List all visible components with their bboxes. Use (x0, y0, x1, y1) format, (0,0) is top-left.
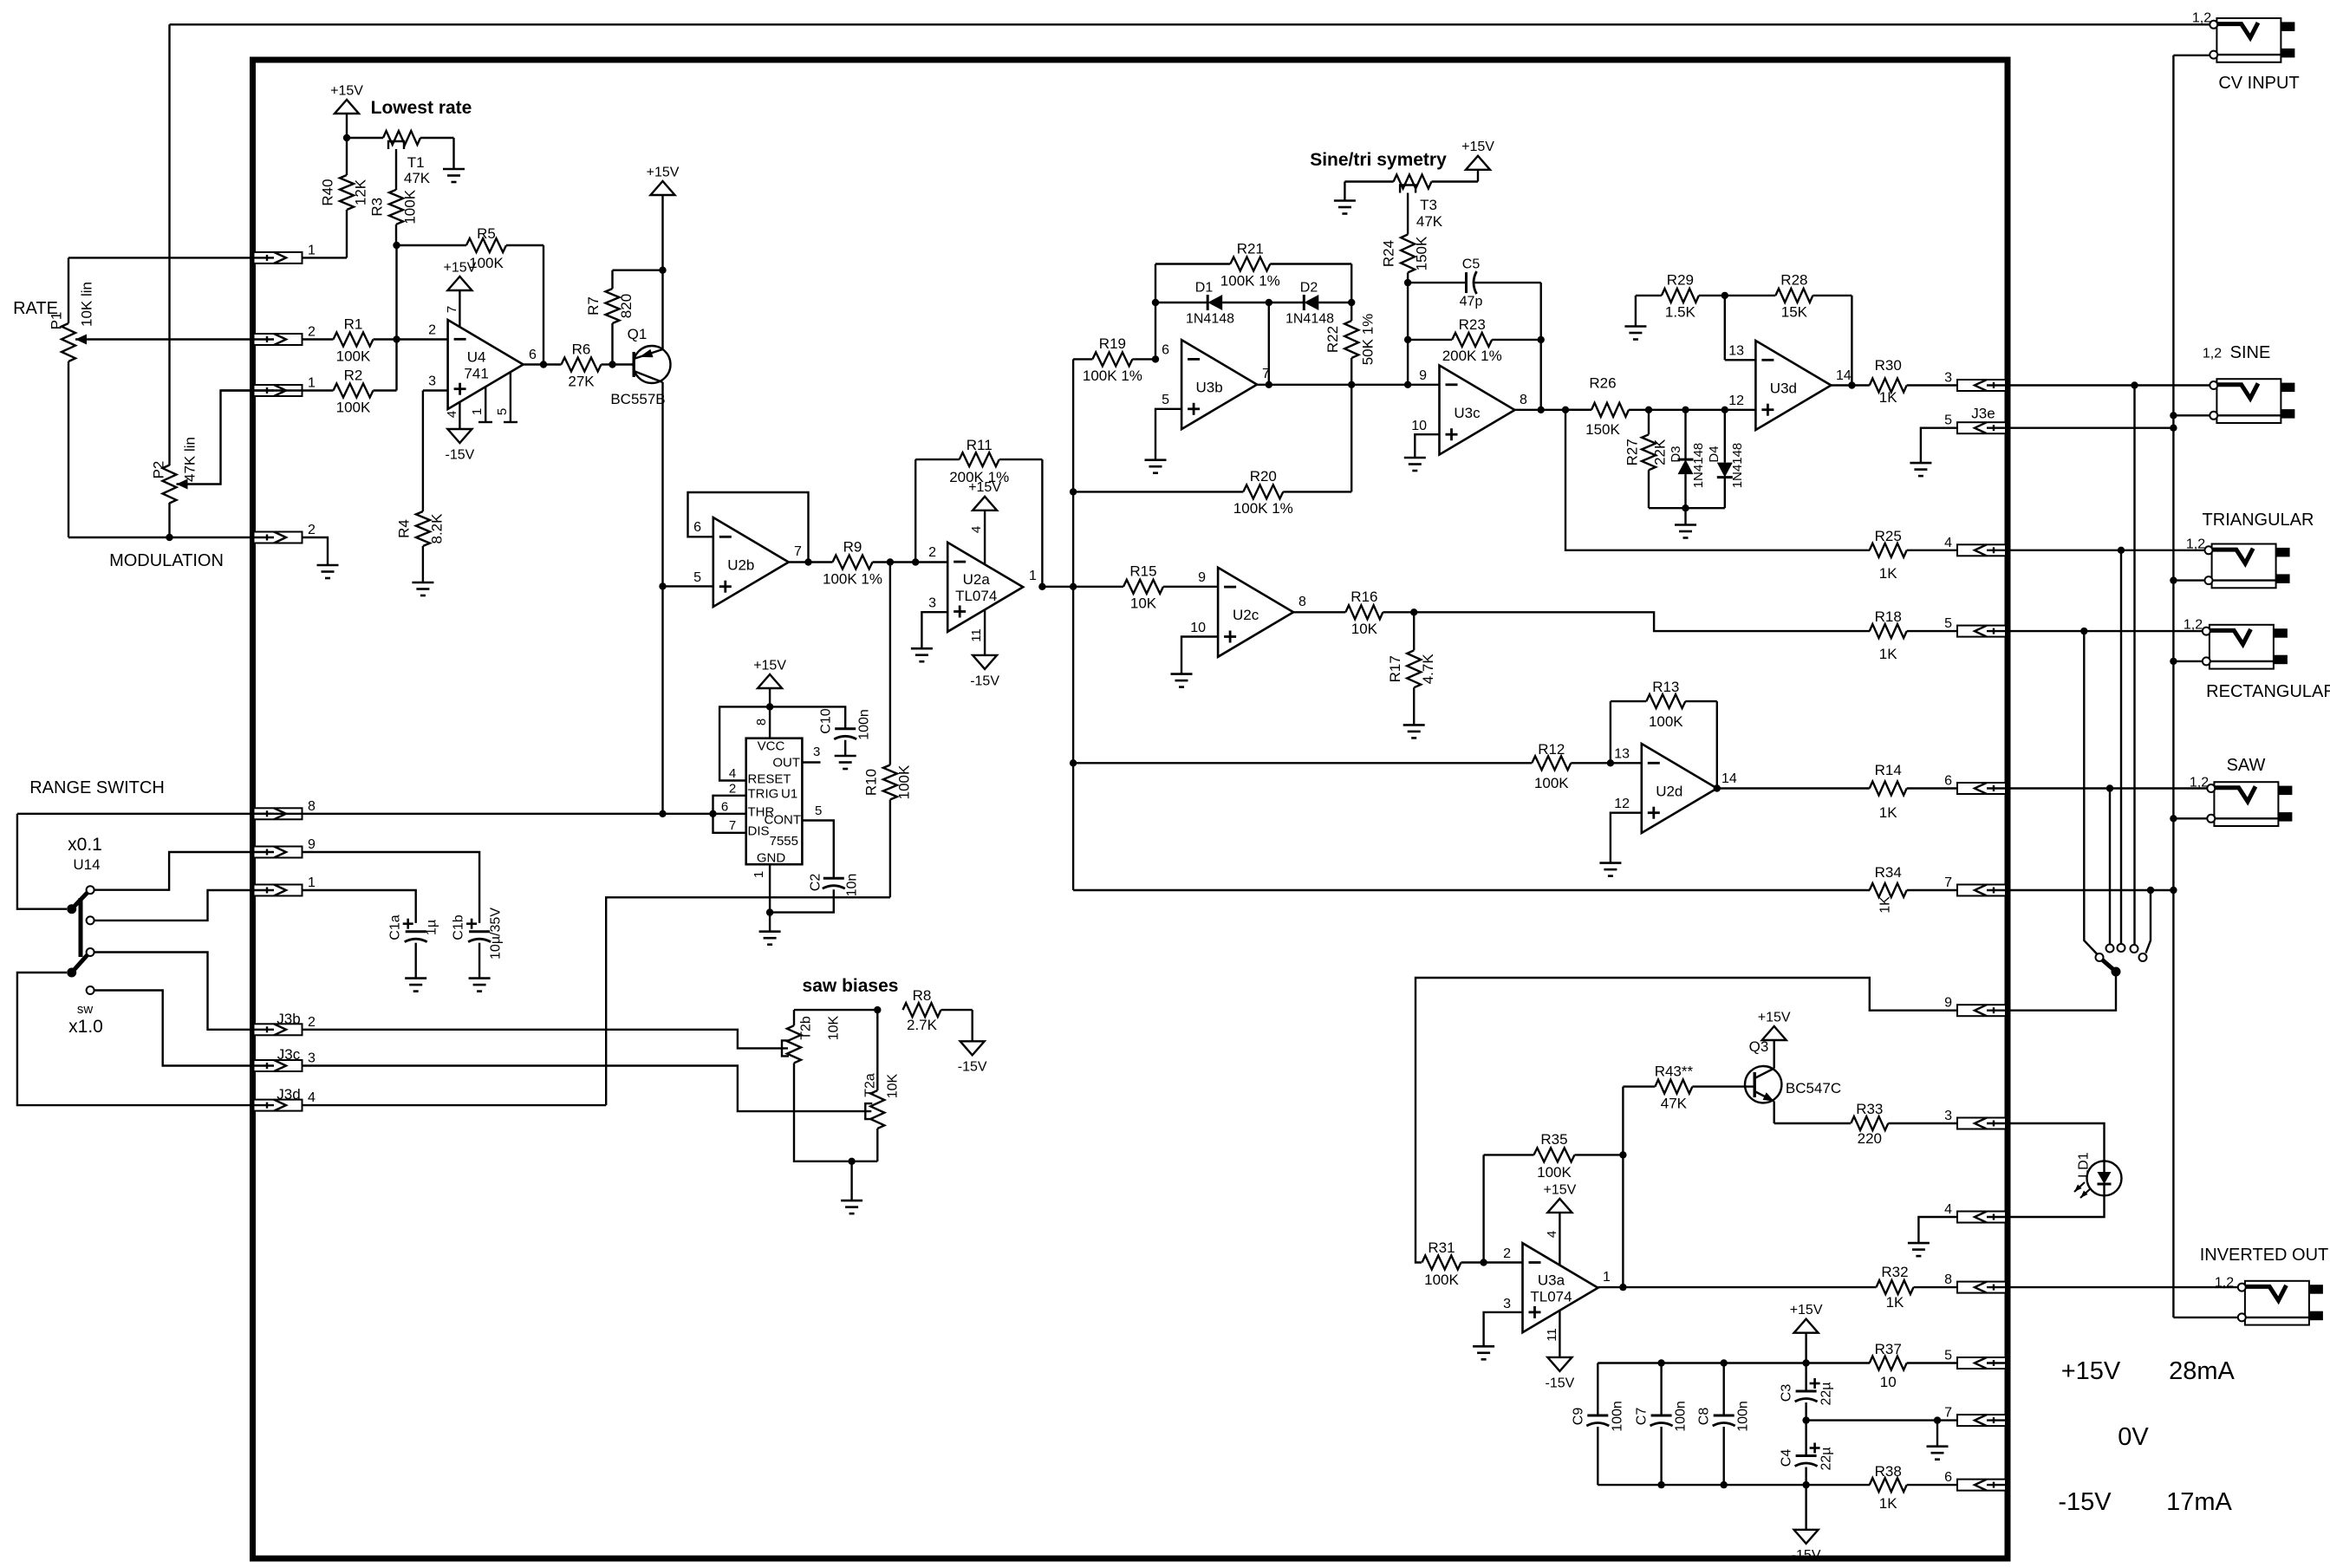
label SAW (2227, 756, 2266, 775)
wire thr (713, 813, 746, 815)
node U2b plus input (659, 582, 666, 589)
svg-text:R28: R28 (1780, 272, 1807, 289)
svg-text:-15V: -15V (2058, 1488, 2112, 1516)
node U3c pin9 (1404, 381, 1411, 388)
label sw (77, 1002, 94, 1017)
svg-text:12: 12 (1614, 797, 1630, 811)
svg-text:1K: 1K (1879, 565, 1897, 582)
node R26 left (1562, 407, 1569, 413)
svg-text:LD1: LD1 (2076, 1152, 2091, 1177)
wire P1 wiper row (75, 338, 254, 340)
svg-text:U2c: U2c (1233, 607, 1259, 623)
power +15V (rail) (1790, 1303, 1823, 1363)
svg-text:10n: 10n (844, 874, 859, 897)
label TRIANGULAR (2203, 511, 2314, 530)
connector pin 8 (inverted out) (1944, 1272, 2006, 1293)
wire R11 right down (1041, 459, 1043, 587)
wire R13 loop (1610, 701, 1611, 763)
wire R34 feed (1073, 889, 1870, 891)
svg-text:R18: R18 (1875, 608, 1902, 625)
op-amp U2d (1614, 744, 1737, 833)
svg-text:BC557B: BC557B (610, 391, 665, 407)
svg-text:R6: R6 (572, 341, 591, 357)
svg-text:3: 3 (1503, 1297, 1511, 1311)
ground R17 (1403, 725, 1425, 738)
svg-text:+15V: +15V (647, 165, 680, 179)
svg-text:Lowest rate: Lowest rate (371, 98, 472, 118)
ground U3b pin5 (1145, 460, 1167, 473)
svg-text:22µ: 22µ (1819, 1447, 1833, 1470)
svg-text:R23: R23 (1459, 316, 1486, 333)
resistor R5 (397, 225, 544, 271)
svg-text:1,2: 1,2 (2186, 537, 2205, 551)
resistor R11 (915, 437, 1042, 485)
capacitor C9 100n (1571, 1363, 1624, 1486)
svg-text:R21: R21 (1237, 240, 1264, 257)
svg-text:D2: D2 (1300, 280, 1318, 295)
svg-text:-15V: -15V (446, 447, 475, 462)
op-amp U3a (1503, 1243, 1611, 1332)
wire switch feed c3 (2120, 550, 2122, 944)
node R13 left (1607, 759, 1614, 766)
wire pin13 riser (1724, 296, 1726, 360)
svg-text:OUT: OUT (772, 756, 800, 771)
ground J3e (1910, 463, 1931, 476)
node R40 top (343, 134, 350, 141)
border frame (253, 60, 2008, 1558)
wire sine sleeve to bus (2173, 414, 2210, 416)
svg-text:1,2: 1,2 (2190, 775, 2209, 790)
op-amp U2a (928, 543, 1037, 632)
wire switch feed c5 (2146, 890, 2151, 953)
svg-text:4.7K: 4.7K (1420, 654, 1436, 685)
svg-text:2: 2 (308, 1015, 316, 1030)
svg-text:5: 5 (495, 408, 510, 415)
svg-text:9: 9 (308, 837, 316, 852)
capacitor C5 47p (1408, 257, 1541, 309)
wire to U3a pin2 (1484, 1261, 1523, 1263)
capacitor C7 100n (1634, 1363, 1688, 1486)
wire CV line down to P2 (168, 24, 170, 465)
rotary switch contacts (2096, 944, 2147, 961)
svg-text:5: 5 (693, 570, 701, 585)
resistor R28 (1725, 272, 1852, 321)
svg-text:U14: U14 (73, 856, 100, 873)
svg-text:R24: R24 (1381, 240, 1397, 267)
svg-text:R35: R35 (1540, 1131, 1567, 1148)
svg-text:200K 1%: 200K 1% (1442, 348, 1502, 364)
svg-text:R34: R34 (1875, 864, 1902, 881)
node U4 output (540, 361, 547, 368)
svg-text:100K 1%: 100K 1% (1233, 500, 1293, 517)
svg-text:D4: D4 (1707, 446, 1721, 462)
power +15V (U3a pin4) (1543, 1182, 1576, 1265)
connector pin 5 J3e (1944, 405, 2006, 433)
svg-text:MODULATION: MODULATION (109, 551, 224, 570)
wire core bus (1072, 359, 1074, 890)
svg-text:3: 3 (428, 374, 436, 389)
svg-text:12: 12 (1728, 394, 1744, 408)
label CV INPUT (2218, 74, 2299, 93)
svg-text:7: 7 (1262, 367, 1270, 381)
connector J3c pin 3 (254, 1046, 316, 1071)
ground T1 (443, 169, 465, 182)
transistor Q3 BC547C (1745, 1038, 1841, 1123)
svg-text:+15V: +15V (443, 260, 476, 275)
svg-text:T1: T1 (407, 154, 425, 171)
op-amp U2c (1190, 568, 1306, 657)
wire U3a pin3 to ground (1484, 1312, 1523, 1346)
resistor R21 (1155, 240, 1351, 289)
connector pin 6 (saw out) (1944, 774, 2006, 795)
svg-text:10µ/35V: 10µ/35V (488, 908, 503, 960)
svg-text:J3c: J3c (277, 1046, 301, 1063)
svg-text:1: 1 (752, 871, 766, 878)
resistor R3 (369, 189, 419, 245)
svg-text:22µ: 22µ (1819, 1382, 1833, 1405)
svg-text:8.2K: 8.2K (428, 513, 445, 544)
node R7/+15V (659, 267, 666, 274)
svg-text:Sine/tri symetry: Sine/tri symetry (1310, 150, 1447, 170)
svg-text:10: 10 (1411, 419, 1427, 433)
resistor R17 (1387, 612, 1436, 725)
svg-text:+15V: +15V (1461, 140, 1494, 154)
svg-text:U2a: U2a (963, 571, 991, 588)
svg-text:1,2: 1,2 (2215, 1275, 2234, 1290)
svg-text:R11: R11 (966, 437, 993, 453)
wire sine out to jack (2008, 384, 2210, 386)
svg-text:14: 14 (1836, 368, 1852, 383)
power +15V (Q1) (647, 165, 680, 270)
wire U2a pin3 to ground (921, 612, 947, 648)
svg-text:R15: R15 (1129, 563, 1156, 580)
label 0V (2118, 1423, 2149, 1451)
node rail c7 (1657, 1359, 1664, 1366)
power -15V (rail) (1792, 1485, 1821, 1563)
power +15V (T3) (1461, 140, 1494, 181)
svg-text:100K 1%: 100K 1% (1220, 272, 1280, 289)
svg-text:R16: R16 (1350, 589, 1377, 605)
IC U1 7555 (746, 738, 803, 866)
node D2 right (1348, 299, 1355, 306)
svg-text:R8: R8 (913, 987, 932, 1004)
wire U2d pin12 to ground (1611, 813, 1642, 863)
svg-text:7: 7 (729, 818, 736, 833)
ground U1 (759, 932, 781, 945)
resistor R26 (1565, 374, 1649, 438)
label x0.1 (68, 835, 102, 855)
connector pin 5 (rect out) (1944, 616, 2006, 637)
svg-text:saw biases: saw biases (803, 976, 899, 996)
wire clamp rail (1649, 507, 1725, 509)
trimpot T2a (862, 1010, 900, 1161)
svg-text:C1b: C1b (451, 914, 465, 940)
svg-text:1N4148: 1N4148 (1730, 443, 1745, 489)
svg-text:10: 10 (1190, 621, 1206, 635)
svg-text:7: 7 (1944, 875, 1952, 890)
wire R8 right to -15V (971, 1010, 973, 1041)
node R23 left (1404, 336, 1411, 343)
node U2b out (804, 558, 811, 565)
label 1,2 (rect) (2184, 617, 2203, 632)
svg-text:SAW: SAW (2227, 756, 2266, 775)
svg-text:100K: 100K (1537, 1164, 1572, 1181)
node U3d out (1848, 381, 1855, 388)
svg-text:-15V: -15V (1792, 1548, 1821, 1563)
svg-text:VCC: VCC (758, 739, 785, 754)
wire R35/R43 riser (1622, 1087, 1624, 1288)
svg-text:47K: 47K (404, 170, 431, 186)
wire conn8 to pole1 (17, 814, 67, 909)
wire conn9 to R31 (1416, 978, 1957, 1263)
svg-text:R33: R33 (1856, 1101, 1883, 1117)
jack CV INPUT (2210, 18, 2294, 62)
label 1,2 (inv) (2215, 1275, 2234, 1290)
wire U4 out (524, 363, 543, 365)
pin 5 stub U4 (495, 373, 517, 422)
wire rect out to jack (2008, 630, 2203, 632)
resistor R22 (1324, 303, 1377, 385)
svg-text:TL074: TL074 (1530, 1288, 1572, 1304)
svg-text:10K: 10K (1351, 621, 1378, 637)
svg-text:+15V: +15V (968, 480, 1001, 495)
svg-text:C3: C3 (1779, 1384, 1793, 1402)
resistor R29 (1636, 272, 1725, 321)
wire R9 node to U2a (890, 561, 947, 563)
svg-text:+15V: +15V (2061, 1357, 2121, 1385)
connector pin 1 (rate cv) (254, 243, 316, 264)
node collector/thr (659, 810, 666, 817)
svg-text:1: 1 (470, 408, 485, 415)
svg-text:8: 8 (754, 719, 769, 725)
node rail c3 (1802, 1359, 1809, 1366)
svg-text:3: 3 (813, 745, 820, 759)
wire throw3 to J3b (94, 953, 254, 1030)
svg-text:6: 6 (1162, 343, 1169, 358)
label RANGE SWITCH (29, 778, 165, 797)
svg-text:U3b: U3b (1196, 379, 1223, 395)
node R3/R5 junction (393, 242, 400, 249)
svg-text:R3: R3 (369, 198, 386, 217)
svg-text:1,2: 1,2 (2192, 10, 2211, 25)
wire throw2 to conn1 (94, 890, 254, 921)
svg-text:7: 7 (1944, 1406, 1952, 1421)
svg-text:R30: R30 (1875, 357, 1902, 374)
node R22 bottom (1348, 381, 1355, 388)
node sine switch feed (2131, 381, 2138, 388)
svg-text:Q1: Q1 (628, 326, 648, 342)
wire conn3 to LED (2008, 1123, 2105, 1161)
wire R20 right up (1350, 385, 1352, 492)
node U2d out (1714, 784, 1721, 791)
connector J3d pin 4 (254, 1086, 316, 1111)
resistor R43 (1623, 1063, 1754, 1111)
label RECTANGULAR (2206, 682, 2330, 701)
svg-text:SINE: SINE (2230, 343, 2271, 362)
svg-text:5: 5 (815, 804, 822, 818)
wire inv sleeve to bus (2173, 1317, 2237, 1318)
wire tri sleeve to bus (2173, 579, 2204, 581)
svg-text:-15V: -15V (958, 1060, 987, 1075)
node sine sleeve (2170, 412, 2177, 419)
resistor R12 (1073, 741, 1611, 791)
svg-text:7555: 7555 (770, 834, 798, 849)
wire R24 node down to pin9 (1407, 283, 1409, 385)
svg-text:TRIANGULAR: TRIANGULAR (2203, 511, 2314, 530)
switch U14 throw 1 (87, 886, 94, 894)
svg-text:100K: 100K (402, 189, 419, 224)
wire R28 right down (1851, 296, 1852, 386)
node rail2 c4 (1802, 1481, 1809, 1488)
wire U4 pin3 (423, 389, 448, 391)
svg-text:-15V: -15V (970, 673, 999, 688)
node Q1 base (609, 361, 615, 368)
label 1,2 (cv) (2192, 10, 2211, 25)
power +15V (U2a pin4) (968, 480, 1001, 564)
wire rect sleeve to bus (2173, 660, 2202, 662)
svg-text:C8: C8 (1696, 1408, 1711, 1426)
label -15V 17mA (2058, 1488, 2232, 1516)
svg-text:U3d: U3d (1770, 380, 1797, 396)
svg-text:+15V: +15V (1790, 1303, 1823, 1318)
wire R21/D1 left riser (1155, 264, 1156, 360)
svg-text:R2: R2 (344, 367, 363, 383)
wire P1 top to connector 1 (68, 257, 347, 258)
svg-text:R26: R26 (1589, 374, 1616, 391)
node R1 junction (393, 335, 400, 342)
svg-text:1: 1 (308, 243, 316, 257)
svg-text:R4: R4 (395, 519, 412, 538)
wire U3b pin5 to ground (1155, 409, 1181, 460)
label 1,2 (tri) (2186, 537, 2205, 551)
svg-text:2: 2 (729, 782, 736, 797)
svg-text:11: 11 (969, 628, 984, 642)
svg-text:C5: C5 (1462, 257, 1481, 271)
resistor R9 (789, 538, 890, 587)
svg-text:6: 6 (1944, 774, 1952, 789)
power -15V (U2a pin11) (969, 609, 999, 688)
ground 0V (1927, 1421, 1949, 1460)
node R28 left (1721, 292, 1728, 299)
svg-text:TL074: TL074 (955, 588, 997, 604)
node R12 tap (1070, 759, 1077, 766)
svg-text:R37: R37 (1875, 1341, 1902, 1357)
svg-text:2: 2 (928, 545, 936, 560)
svg-text:1K: 1K (1878, 896, 1892, 914)
svg-text:14: 14 (1721, 771, 1737, 786)
connector pin 7 (0V) (1944, 1406, 2006, 1427)
wire switch feed c4 (2133, 386, 2135, 946)
svg-text:10K: 10K (885, 1073, 900, 1098)
wire conn1 to C1a (303, 890, 416, 923)
resistor R14 (1717, 762, 1957, 821)
svg-text:1N4148: 1N4148 (1285, 311, 1334, 326)
svg-text:22K: 22K (1652, 439, 1669, 465)
resistor R7 (585, 270, 635, 365)
wire U1 out stub (802, 745, 820, 763)
ground U2a pin3 (911, 648, 933, 661)
wire to U3c pin9 (1351, 384, 1439, 386)
diode D1 1N4148 (1155, 280, 1269, 326)
node U3b out 2 (1266, 381, 1272, 388)
power +15V (R40) (330, 83, 363, 138)
node R20 tap (1070, 488, 1077, 495)
wire R11 loop (914, 459, 916, 562)
svg-text:1K: 1K (1886, 1294, 1904, 1311)
power +15V (U4 pin7) (443, 260, 476, 327)
resistor R8 (903, 987, 973, 1033)
svg-text:R40: R40 (320, 179, 336, 205)
switch U14 pole 2 (67, 955, 88, 978)
wire Q3 emitter to R33 (1774, 1122, 1851, 1124)
node R8 left (874, 1006, 881, 1013)
diode D4 1N4148 (1707, 410, 1745, 508)
node D4 top (1721, 407, 1728, 413)
svg-text:100n: 100n (856, 709, 871, 740)
wire pole to connector 9 (2008, 972, 2116, 1011)
wire R5 to output node (543, 245, 544, 365)
label saw biases (803, 976, 899, 996)
node R23 right (1538, 336, 1545, 343)
svg-text:1K: 1K (1879, 1495, 1897, 1512)
connector pin 8 (timing node) (254, 799, 316, 820)
svg-text:J3d: J3d (277, 1086, 300, 1103)
svg-text:100n: 100n (1735, 1401, 1750, 1432)
label MODULATION (109, 551, 224, 570)
svg-text:R19: R19 (1099, 335, 1126, 352)
wire R25 feed (1565, 410, 1870, 550)
resistor R35 (1484, 1131, 1624, 1181)
node D3 top (1682, 407, 1689, 413)
svg-text:R20: R20 (1250, 468, 1277, 485)
wire pole2 to J3d (17, 973, 254, 1105)
wire conn4 inside to ground (1918, 1217, 1957, 1243)
diode D3 1N4148 (1669, 410, 1706, 508)
svg-text:RANGE SWITCH: RANGE SWITCH (29, 778, 165, 797)
svg-text:C10: C10 (818, 708, 833, 733)
svg-text:U3a: U3a (1538, 1272, 1565, 1288)
wire normalling bus (2172, 55, 2174, 1318)
wire 0V row (1806, 1419, 1957, 1421)
wire J3b to T2b wiper (303, 1030, 789, 1049)
svg-text:4: 4 (445, 411, 459, 418)
svg-text:47K: 47K (1416, 213, 1443, 230)
node 0V gnd tap (1934, 1416, 1941, 1423)
wire R26 to U3d pin12 (1649, 409, 1755, 411)
power -15V (R8) (958, 1041, 987, 1074)
wire R21 right down (1350, 264, 1352, 303)
trimpot T1 (347, 131, 454, 190)
node U1 vcc (766, 703, 773, 710)
svg-text:1K: 1K (1879, 804, 1897, 821)
connector pin 3 (sine out) (1944, 371, 2006, 392)
node tri switch feed (2118, 547, 2125, 554)
svg-text:C9: C9 (1571, 1408, 1585, 1426)
wire collector to thr (661, 586, 663, 813)
capacitor C3 22u (1779, 1363, 1833, 1421)
wire CV pin2 (2173, 55, 2210, 56)
svg-text:8: 8 (1298, 595, 1306, 609)
ground conn4 (1908, 1243, 1930, 1256)
wire -15V rail (1598, 1484, 1870, 1486)
node R31 right (1480, 1259, 1487, 1265)
diode D2 1N4148 (1269, 280, 1351, 326)
pin 8 label (754, 719, 769, 725)
node R10 top (887, 558, 894, 565)
jack SAW (2207, 782, 2292, 826)
svg-text:R25: R25 (1875, 528, 1902, 544)
svg-text:7: 7 (794, 544, 802, 559)
